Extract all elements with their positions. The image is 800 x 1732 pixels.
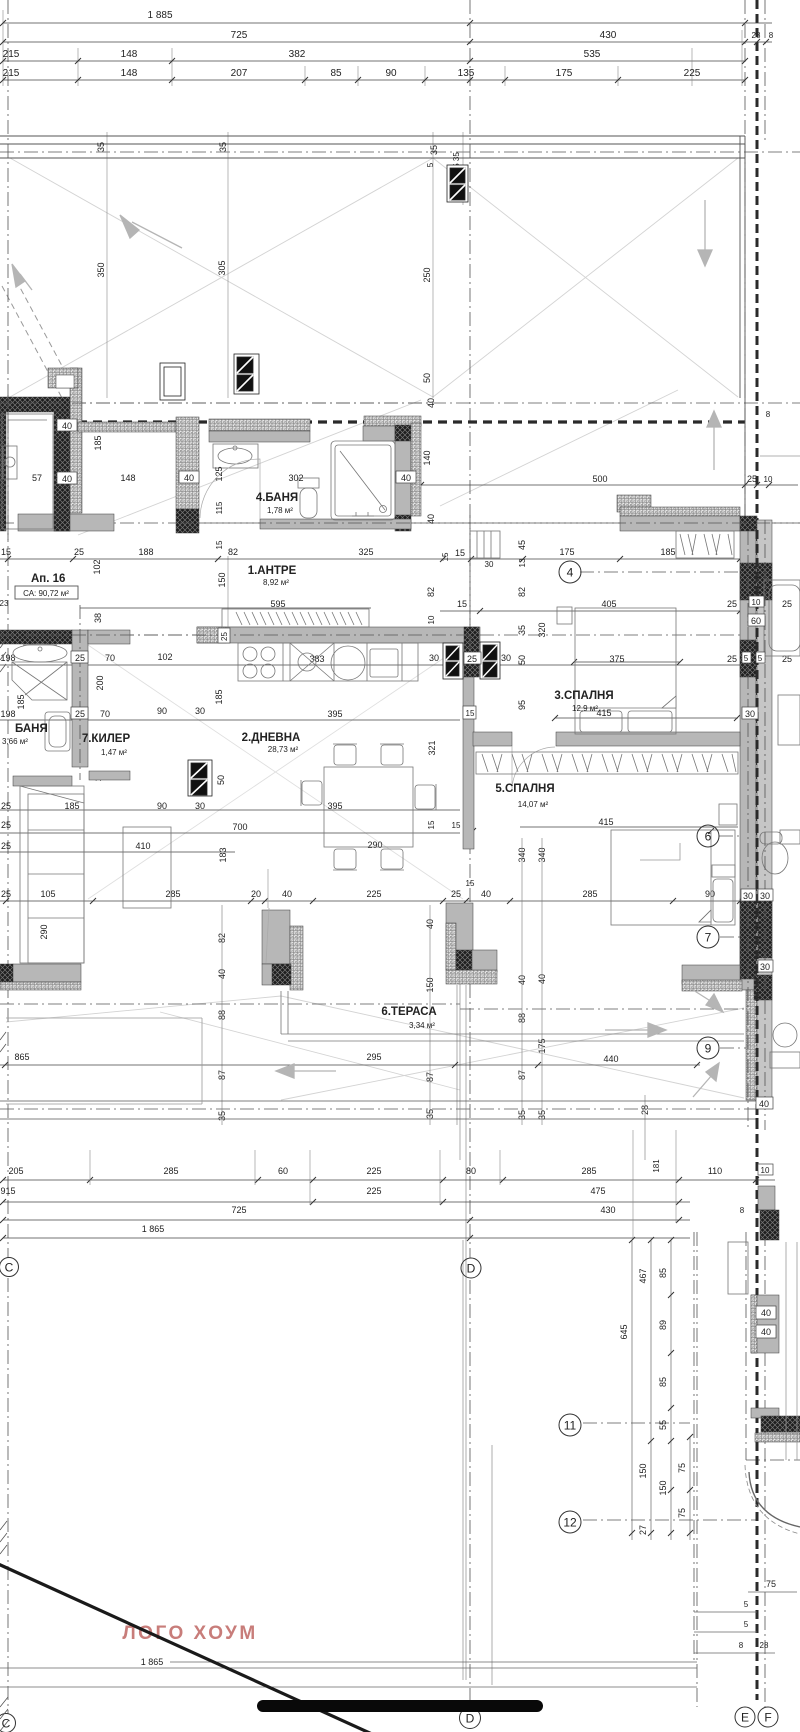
svg-text:250: 250: [422, 267, 432, 282]
top dimension texts: [3, 10, 701, 79]
svg-text:148: 148: [121, 68, 138, 79]
svg-text:410: 410: [135, 841, 150, 851]
thick dashed party line overlay: [756, 530, 759, 1130]
svg-text:28: 28: [752, 31, 761, 40]
svg-text:5: 5: [744, 1600, 749, 1609]
svg-text:40: 40: [759, 1099, 769, 1109]
svg-text:СА: 90,72 м²: СА: 90,72 м²: [23, 589, 69, 598]
svg-text:102: 102: [92, 559, 102, 574]
svg-text:60: 60: [751, 616, 761, 626]
row y=713 labels: [0, 622, 547, 781]
svg-text:1 885: 1 885: [147, 10, 172, 21]
svg-text:1,78 м²: 1,78 м²: [267, 506, 293, 515]
svg-text:415: 415: [596, 708, 611, 718]
svg-text:90: 90: [157, 801, 167, 811]
svg-text:30: 30: [429, 653, 439, 663]
svg-text:5: 5: [744, 1620, 749, 1629]
svg-text:415: 415: [598, 817, 613, 827]
svg-text:90: 90: [385, 68, 397, 79]
bedroom3 wardrobe: [676, 531, 734, 558]
svg-text:225: 225: [366, 889, 381, 899]
svg-text:25: 25: [1, 889, 11, 899]
svg-text:75: 75: [766, 1579, 776, 1589]
svg-text:150: 150: [658, 1480, 668, 1495]
party wall black block at bath: [740, 516, 757, 531]
svg-text:5: 5: [758, 654, 763, 663]
hatched band north wall of hall: [78, 422, 176, 432]
svg-text:25: 25: [1, 841, 11, 851]
svg-text:Ап. 16: Ап. 16: [31, 573, 65, 585]
grid bubbles: [0, 561, 778, 1732]
svg-text:40: 40: [62, 421, 72, 431]
svg-text:475: 475: [590, 1186, 605, 1196]
bath4 sink: [213, 444, 258, 468]
svg-text:23: 23: [0, 599, 9, 608]
bedroom3 north wall band: [620, 507, 740, 516]
left bath corner shower: [12, 662, 67, 700]
svg-text:185: 185: [214, 689, 224, 704]
thick dashed party line top right: [756, 0, 759, 1700]
svg-text:12: 12: [563, 1516, 577, 1530]
svg-text:5.СПАЛНЯ: 5.СПАЛНЯ: [495, 783, 554, 795]
svg-text:185: 185: [16, 694, 26, 709]
svg-text:БАНЯ: БАНЯ: [15, 723, 48, 735]
svg-text:40: 40: [282, 889, 292, 899]
svg-text:8,92 м²: 8,92 м²: [263, 578, 289, 587]
svg-text:205: 205: [8, 1166, 23, 1176]
svg-text:82: 82: [426, 587, 436, 597]
svg-text:89: 89: [658, 1320, 668, 1330]
bottom right vertical chains: [632, 1240, 690, 1540]
svg-text:25: 25: [451, 889, 461, 899]
north wall bath4 right part: [364, 416, 421, 426]
bedroom5 wardrobe: [476, 752, 738, 774]
svg-text:290: 290: [39, 924, 49, 939]
svg-text:25: 25: [727, 599, 737, 609]
svg-text:320: 320: [537, 622, 547, 637]
svg-text:3.СПАЛНЯ: 3.СПАЛНЯ: [554, 690, 613, 702]
svg-text:215: 215: [3, 49, 20, 60]
killer south wall: [89, 771, 130, 780]
svg-text:40: 40: [481, 889, 491, 899]
chain y=893: [1, 817, 715, 899]
svg-text:90: 90: [705, 889, 715, 899]
grid axis D vertical: [469, 0, 471, 1258]
north wall black band left: [0, 397, 77, 412]
svg-text:325: 325: [358, 547, 373, 557]
svg-text:40: 40: [761, 1308, 771, 1318]
svg-text:8: 8: [740, 1206, 745, 1215]
svg-text:915: 915: [0, 1186, 15, 1196]
svg-text:440: 440: [603, 1054, 618, 1064]
svg-text:1 865: 1 865: [141, 1657, 164, 1667]
svg-text:ЛОГО ХОУМ: ЛОГО ХОУМ: [122, 1623, 257, 1644]
svg-text:13: 13: [518, 558, 527, 567]
room labels: [2, 492, 614, 1030]
bed bedroom5: [611, 830, 735, 925]
bath4 toilet: [298, 478, 319, 488]
faint slab diagonals: [6, 158, 744, 1100]
insulation strip left column: [70, 368, 82, 513]
svg-text:11: 11: [564, 1419, 577, 1433]
svg-text:9: 9: [705, 1042, 712, 1056]
terrace east pier: [446, 903, 473, 970]
svg-text:28,73 м²: 28,73 м²: [268, 745, 299, 754]
svg-text:5: 5: [744, 654, 749, 663]
svg-text:8: 8: [769, 31, 774, 40]
svg-text:185: 185: [64, 801, 79, 811]
svg-text:40: 40: [184, 473, 194, 483]
svg-text:295: 295: [366, 1052, 381, 1062]
svg-text:105: 105: [40, 889, 55, 899]
wall pier between hall and bath: [176, 417, 199, 509]
svg-text:20: 20: [251, 889, 261, 899]
svg-text:5: 5: [426, 162, 435, 167]
svg-text:70: 70: [105, 653, 115, 663]
axis dash-dot overlays on walls: [0, 395, 800, 1100]
dim row y=603 (595/405 row): [0, 558, 792, 624]
svg-text:15: 15: [427, 820, 436, 829]
svg-text:430: 430: [600, 1205, 615, 1215]
svg-text:85: 85: [658, 1377, 668, 1387]
svg-text:305: 305: [217, 260, 227, 275]
svg-text:321: 321: [427, 740, 437, 755]
svg-text:15: 15: [466, 879, 475, 888]
svg-text:30: 30: [195, 706, 205, 716]
svg-text:865: 865: [14, 1052, 29, 1062]
svg-text:188: 188: [138, 547, 153, 557]
svg-text:7.КИЛЕР: 7.КИЛЕР: [82, 733, 131, 745]
svg-text:30: 30: [760, 962, 770, 972]
svg-text:35: 35: [218, 142, 228, 152]
svg-text:45: 45: [517, 540, 527, 550]
vertical chains terrace zone: [217, 847, 650, 1121]
svg-text:430: 430: [600, 30, 617, 41]
window sill symbols (dark squares with diagonals): [160, 165, 500, 796]
svg-text:215: 215: [3, 68, 20, 79]
svg-text:C: C: [5, 1261, 14, 1275]
svg-text:50: 50: [216, 775, 226, 785]
grid axis E vertical: [696, 1232, 698, 1707]
svg-text:30: 30: [760, 891, 770, 901]
svg-text:10: 10: [752, 598, 761, 607]
svg-text:1.АНТРЕ: 1.АНТРЕ: [248, 565, 297, 577]
top dimension rows: [3, 23, 772, 80]
bath4 south wall strip: [260, 519, 411, 529]
svg-text:135: 135: [458, 68, 475, 79]
curtain line terrace door: [266, 869, 269, 963]
bedroom5 small closet right: [640, 843, 680, 860]
svg-text:700: 700: [232, 822, 247, 832]
svg-text:15: 15: [455, 548, 465, 558]
svg-text:175: 175: [556, 68, 573, 79]
svg-text:725: 725: [231, 1205, 246, 1215]
kitchen counter: [238, 643, 418, 681]
svg-text:382: 382: [289, 49, 306, 60]
svg-text:85: 85: [658, 1268, 668, 1278]
gray ventilation arrows: [12, 200, 723, 1097]
svg-text:500: 500: [592, 474, 607, 484]
bottom dimension rows: [0, 1159, 744, 1234]
svg-text:125: 125: [214, 466, 224, 481]
svg-text:8: 8: [766, 410, 771, 419]
svg-text:395: 395: [327, 709, 342, 719]
hall west black wall: [0, 630, 72, 644]
svg-text:80: 80: [466, 1166, 476, 1176]
svg-text:1,47 м²: 1,47 м²: [101, 748, 127, 757]
left storage room outline: [2, 414, 53, 529]
washing machine left room: [3, 446, 17, 479]
svg-text:15: 15: [466, 709, 475, 718]
svg-text:82: 82: [517, 587, 527, 597]
svg-text:30: 30: [485, 560, 494, 569]
black column at kitchen east: [464, 627, 479, 677]
svg-text:183: 183: [218, 847, 228, 862]
living south wall: [0, 964, 13, 987]
svg-text:25: 25: [75, 709, 85, 719]
svg-text:175: 175: [559, 547, 574, 557]
svg-text:25: 25: [727, 654, 737, 664]
svg-text:12,9 м²: 12,9 м²: [572, 704, 598, 713]
svg-text:148: 148: [121, 49, 138, 60]
north wall band of bath4 left part: [209, 419, 310, 431]
svg-text:181: 181: [652, 1159, 661, 1173]
terrace west pier: [262, 910, 290, 964]
svg-text:6.ТЕРАСА: 6.ТЕРАСА: [381, 1006, 436, 1018]
svg-text:102: 102: [157, 652, 172, 662]
entry door steps: [470, 531, 500, 558]
bath4 east wall: [395, 441, 411, 516]
svg-text:F: F: [764, 1711, 771, 1725]
door swing bedroom5: [512, 746, 555, 789]
furniture and fixtures: [2, 414, 800, 1534]
svg-text:70: 70: [100, 709, 110, 719]
kitchen wall row labels y=657: [0, 652, 792, 664]
svg-text:198: 198: [0, 709, 15, 719]
dishwasher: [370, 649, 398, 677]
svg-text:60: 60: [278, 1166, 288, 1176]
mid dim row y=551 under bath row: [1, 540, 676, 561]
bottom area lines: [0, 1662, 697, 1687]
neighbor edge line: [760, 455, 800, 457]
hall wardrobe strip: [222, 609, 369, 627]
svg-text:95: 95: [517, 700, 527, 710]
dining table: [324, 767, 413, 847]
bath south wall: [13, 776, 72, 786]
svg-text:25: 25: [75, 653, 85, 663]
svg-text:27: 27: [638, 1525, 648, 1535]
bedroom5 north wall: [473, 732, 512, 746]
killer north stub: [88, 630, 130, 644]
svg-text:290: 290: [367, 840, 382, 850]
top dimension tick marks: [0, 20, 769, 83]
svg-text:28: 28: [760, 1641, 769, 1650]
bedroom3 west wall: [463, 677, 474, 849]
svg-text:225: 225: [366, 1186, 381, 1196]
svg-text:7: 7: [705, 931, 712, 945]
bottom-right small dims: [739, 1579, 776, 1650]
svg-text:15: 15: [452, 821, 461, 830]
big diagonal stroke: [0, 1563, 372, 1732]
neighbor sink lower right: [773, 1023, 797, 1047]
svg-text:10: 10: [761, 1166, 770, 1175]
svg-text:85: 85: [330, 68, 342, 79]
svg-text:8: 8: [739, 1641, 744, 1650]
svg-text:467: 467: [638, 1268, 648, 1283]
left edge black wall: [0, 412, 6, 531]
svg-text:25: 25: [782, 654, 792, 664]
svg-text:82: 82: [228, 547, 238, 557]
living sofa: [20, 786, 84, 963]
left bath toilet: [45, 712, 70, 751]
walls: [0, 368, 800, 1442]
neighbor cabinet right: [778, 695, 800, 745]
svg-text:90: 90: [157, 706, 167, 716]
svg-text:140: 140: [422, 450, 432, 465]
svg-text:25: 25: [1, 801, 11, 811]
boxed wall labels: [32, 398, 776, 1338]
svg-text:2.ДНЕВНА: 2.ДНЕВНА: [242, 732, 301, 744]
svg-text:D: D: [466, 1712, 475, 1726]
chairs: [334, 745, 356, 765]
svg-text:4.БАНЯ: 4.БАНЯ: [256, 492, 298, 504]
svg-text:150: 150: [217, 572, 227, 587]
svg-text:350: 350: [96, 262, 106, 277]
bath floor strip left room: [18, 514, 114, 531]
top dimension extension verticals: [3, 10, 742, 628]
bedroom3 north wall hatch block: [617, 495, 651, 512]
svg-text:6: 6: [705, 830, 712, 844]
svg-text:1 865: 1 865: [142, 1224, 165, 1234]
svg-text:150: 150: [638, 1463, 648, 1478]
svg-text:10: 10: [764, 475, 773, 484]
bottom band lines: [0, 1101, 757, 1119]
svg-text:15: 15: [457, 599, 467, 609]
party wall left layer: [740, 531, 756, 990]
svg-text:285: 285: [165, 889, 180, 899]
neighbor room corner lines right edge: [786, 1242, 797, 1460]
svg-text:645: 645: [619, 1324, 629, 1339]
svg-text:535: 535: [584, 49, 601, 60]
svg-text:4: 4: [567, 566, 574, 580]
svg-text:25: 25: [1, 820, 11, 830]
bed bedroom3: [575, 608, 676, 734]
svg-text:40: 40: [761, 1327, 771, 1337]
stair dashed lines top-left: [2, 280, 76, 398]
left edge section hatch ticks: [0, 640, 8, 1731]
kitchen/hall south wall band: [197, 627, 480, 643]
svg-text:25: 25: [782, 599, 792, 609]
stove burners: [243, 647, 257, 661]
bath4 shower tray: [331, 441, 395, 520]
svg-text:110: 110: [708, 1166, 722, 1176]
svg-text:30: 30: [195, 801, 205, 811]
svg-text:3,34 м²: 3,34 м²: [409, 1021, 435, 1030]
svg-text:25: 25: [74, 547, 84, 557]
svg-text:148: 148: [120, 473, 135, 483]
neighbor right walls bottom: [758, 1186, 775, 1210]
svg-text:285: 285: [582, 889, 597, 899]
svg-text:40: 40: [401, 473, 411, 483]
svg-text:75: 75: [677, 1508, 687, 1518]
svg-text:D: D: [467, 1262, 476, 1276]
svg-text:35: 35: [429, 145, 439, 155]
svg-text:115: 115: [215, 501, 224, 514]
svg-text:285: 285: [581, 1166, 596, 1176]
chain y=810 living room: [1, 740, 437, 939]
svg-text:15: 15: [1, 547, 11, 557]
svg-text:30: 30: [501, 653, 511, 663]
neighbor rounded corner wall: [749, 1472, 800, 1527]
svg-text:38: 38: [93, 613, 103, 623]
left concrete column: [54, 412, 70, 531]
svg-text:25: 25: [747, 474, 757, 484]
party wall right layer: [757, 520, 772, 1100]
neighbor bathtub right: [764, 580, 800, 656]
svg-text:25: 25: [467, 654, 477, 664]
svg-text:30: 30: [743, 891, 753, 901]
svg-text:40: 40: [62, 474, 72, 484]
svg-text:302: 302: [288, 473, 303, 483]
svg-text:55: 55: [658, 1420, 668, 1430]
svg-text:207: 207: [231, 68, 248, 79]
svg-text:185: 185: [93, 435, 103, 450]
horizontal axis lines: [0, 151, 800, 153]
svg-text:185: 185: [660, 547, 675, 557]
door swing bath4: [200, 459, 260, 519]
svg-text:35: 35: [517, 625, 527, 635]
svg-text:225: 225: [684, 68, 701, 79]
svg-text:10: 10: [427, 615, 436, 624]
grid axis F cluster verticals: [744, 0, 746, 560]
865/295/440 dim line: [14, 1052, 618, 1064]
svg-text:595: 595: [270, 599, 285, 609]
svg-text:375: 375: [609, 654, 624, 664]
neighbor toilet right: [780, 830, 800, 844]
svg-text:725: 725: [231, 30, 248, 41]
top terrace band lines: [0, 136, 745, 516]
svg-text:50: 50: [517, 655, 527, 665]
thick dashed beam line over plan: [78, 420, 745, 423]
svg-text:40: 40: [426, 398, 436, 408]
black redaction bar: [257, 1700, 543, 1712]
svg-text:30: 30: [745, 709, 755, 719]
svg-text:395: 395: [327, 801, 342, 811]
sink bowl: [331, 646, 365, 680]
svg-text:E: E: [741, 1711, 749, 1725]
terrace railing: [281, 991, 288, 1034]
rug/armchair: [123, 827, 171, 908]
bedroom5 south pier: [682, 965, 740, 984]
svg-text:40: 40: [426, 514, 436, 524]
rotated 35 labels in band: [96, 142, 461, 383]
svg-text:57: 57: [32, 473, 42, 483]
neighbor door leaf: [728, 1242, 748, 1294]
insulation block above left column: [48, 368, 78, 388]
bath/killer partition wall: [72, 630, 88, 767]
svg-text:35: 35: [96, 142, 106, 152]
left bath sink: [13, 644, 67, 662]
svg-text:14,07 м²: 14,07 м²: [518, 800, 549, 809]
svg-text:75: 75: [677, 1463, 687, 1473]
svg-text:3,66 м²: 3,66 м²: [2, 737, 28, 746]
lower-left balcony outline: [6, 1018, 202, 1104]
svg-text:15: 15: [215, 540, 224, 549]
svg-text:25: 25: [220, 632, 229, 641]
svg-text:200: 200: [95, 675, 105, 690]
svg-text:225: 225: [366, 1166, 381, 1176]
bottom dimension extension verticals: [90, 1130, 676, 1240]
